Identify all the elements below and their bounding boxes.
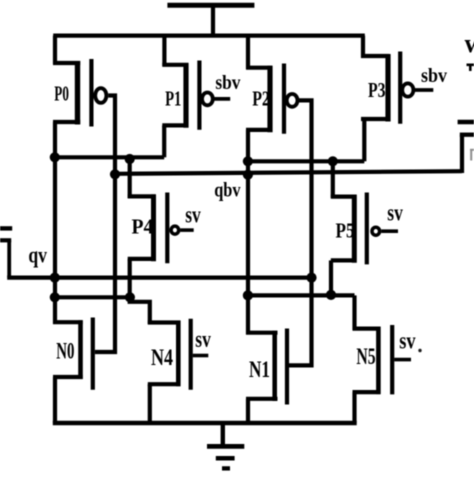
wire: node qv horizontal segment A <box>53 155 164 159</box>
nmos N5 <box>353 325 393 394</box>
svg-text:sbv: sbv <box>215 72 240 94</box>
pmos P4 <box>128 193 179 264</box>
wire: P2 gate / N1 gate to node qv <box>289 100 312 365</box>
wire: N0 drain to ground rail <box>53 377 57 423</box>
wire: N1 drain to ground rail <box>246 399 250 423</box>
ground symbol <box>207 423 244 468</box>
svg-text:N4: N4 <box>151 345 173 370</box>
junction: line C / P2-N1 gate wire <box>306 273 316 283</box>
wire: VDD rail to P3 source <box>361 36 365 58</box>
wire: VDD rail <box>53 33 365 37</box>
nmos N4 <box>148 319 191 390</box>
wire: node qv segment D left <box>53 295 131 299</box>
svg-text:P0: P0 <box>54 81 69 105</box>
left terminal bar upper <box>0 226 12 230</box>
wire: left terminal down to node qv <box>7 240 11 277</box>
junction: line D / P4 drain <box>125 292 135 302</box>
junction: line D2 / P2 drain vertical <box>243 290 253 300</box>
pmos P0 <box>53 59 106 127</box>
wire: node D2 down to N5 source <box>352 295 356 330</box>
power VDD symbol <box>167 5 254 38</box>
junction: line A / P4 source branch <box>125 154 135 164</box>
mark: cut-off symbol top right <box>467 65 474 71</box>
svg-text:qbv: qbv <box>214 178 241 202</box>
wire: N5 drain to ground rail <box>352 392 356 423</box>
wire: node qbv horizontal segment A2 <box>246 159 364 163</box>
wire: VDD rail to P2 source <box>246 36 250 69</box>
wire: node qv horizontal (line C) <box>7 276 311 280</box>
svg-text:sv: sv <box>195 327 211 353</box>
junction: node qv at line A / P0 drain <box>50 152 60 162</box>
pmos P1 <box>162 61 213 130</box>
wire: N4 drain to ground rail <box>148 384 152 423</box>
wire: node A2 down to P5 source <box>331 161 335 198</box>
wire: node qbv horizontal (line B) <box>115 171 462 174</box>
wire: P3 drain down to node A2 <box>362 119 366 161</box>
svg-text:sv: sv <box>387 200 403 226</box>
wire: P4 gate stub to sv <box>180 228 194 232</box>
junction: node qbv line B / P0-N0 gate wire <box>110 169 120 179</box>
wire: N4 gate stub to sv <box>193 354 209 358</box>
right terminal bar lower <box>460 133 474 137</box>
junction: line B / P2 drain vertical <box>243 170 253 180</box>
junction: line A2 / P5 source branch <box>328 156 338 166</box>
wire: VDD rail to P1 source <box>162 36 166 66</box>
pmos P3 <box>361 52 413 124</box>
wire: P1 gate stub to sbv <box>214 97 231 101</box>
pmos P2 <box>246 64 298 134</box>
left terminal bar lower <box>0 238 11 242</box>
junction: line D2 / P5 drain <box>326 290 336 300</box>
wire: node qbv segment D right <box>246 293 355 297</box>
svg-text:P4: P4 <box>132 215 154 239</box>
svg-text:sv: sv <box>399 328 415 354</box>
svg-text:w: w <box>465 29 474 58</box>
mark: faint fragment right edge <box>470 150 474 161</box>
svg-text:sv: sv <box>185 203 201 229</box>
svg-text:P5: P5 <box>336 219 355 243</box>
svg-text:P2: P2 <box>252 86 270 110</box>
wire: P3 gate stub to sbv <box>414 88 433 92</box>
junction: line C / node qv vertical <box>50 273 60 283</box>
junction: line A2 / P2 drain <box>243 156 253 166</box>
wire: P2 drain to N1 source (node qbv vertical) <box>246 130 250 335</box>
wire: P1 drain down to node A <box>162 125 166 157</box>
pmos P5 <box>331 193 380 265</box>
svg-text:N0: N0 <box>56 339 74 364</box>
wire: N5 gate stub to sv <box>394 358 411 362</box>
wire: P5 gate stub to sv <box>381 229 398 233</box>
wire: P0 gate / N0 gate to node qbv <box>95 96 115 353</box>
svg-text:qv: qv <box>28 242 47 267</box>
wire: node A down to P4 source <box>128 157 132 198</box>
svg-text:P3: P3 <box>368 78 386 102</box>
nmos N0 <box>53 318 93 390</box>
svg-text:sbv: sbv <box>421 65 447 87</box>
wire: P4 drain down to node D <box>128 259 132 297</box>
svg-text:N1: N1 <box>249 357 270 382</box>
wire: qbv up to right terminal <box>460 135 464 173</box>
wire: P0 drain to N0 source (node qv vertical) <box>53 122 57 324</box>
right terminal bar upper <box>458 120 474 125</box>
mark: stray period near N5 sv <box>418 349 421 352</box>
nmos N1 <box>246 329 287 405</box>
wire: ground rail <box>53 421 357 425</box>
wire: P5 drain down to node D2 <box>329 260 333 295</box>
wire: node D jog to N4 source <box>130 297 150 324</box>
wire: VDD rail to P0 source <box>53 36 57 64</box>
svg-text:N5: N5 <box>356 344 375 369</box>
svg-text:P1: P1 <box>165 86 181 110</box>
junction: line D / node qv vertical <box>50 292 60 302</box>
